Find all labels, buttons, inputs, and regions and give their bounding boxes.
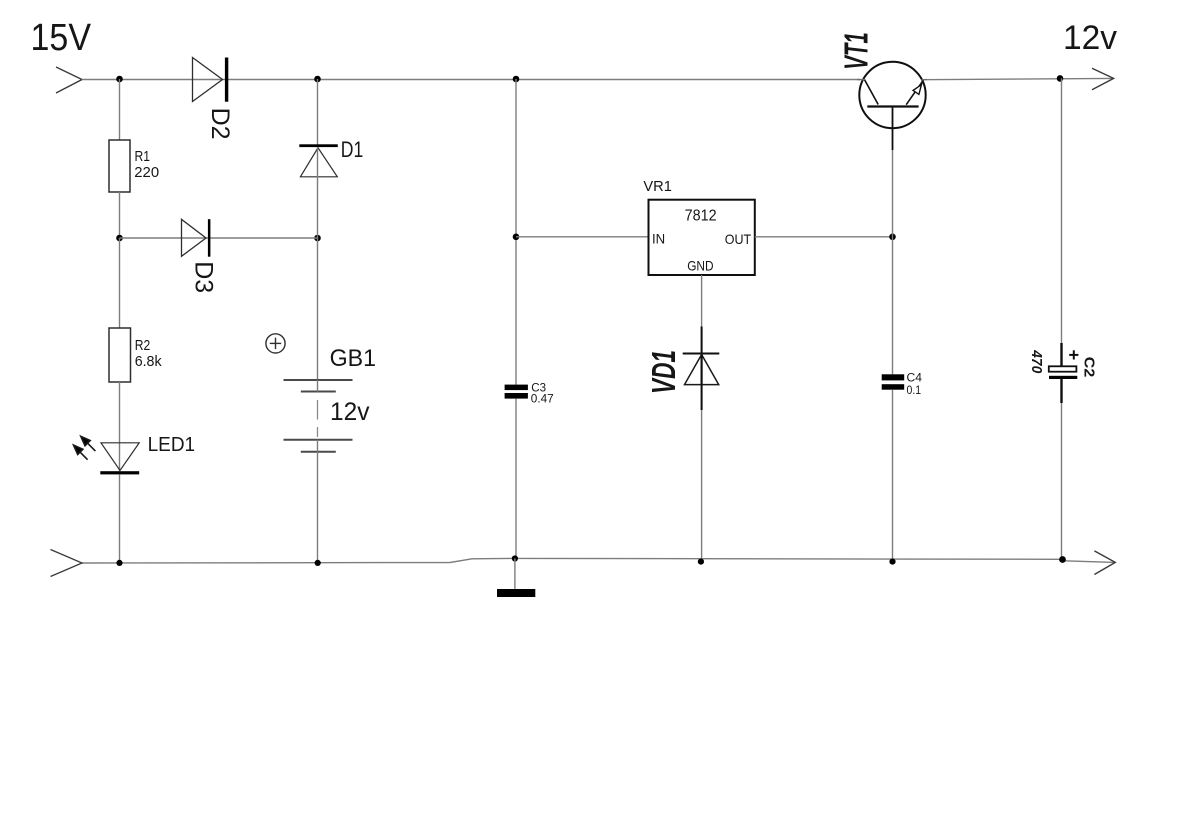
wire VR1 GND lead <box>701 275 703 559</box>
junction D3 row right <box>314 235 321 242</box>
junction D3 row left <box>116 235 123 242</box>
svg-text:OUT: OUT <box>725 231 752 247</box>
wire top rail <box>82 79 860 81</box>
wire bottom rail <box>82 558 1115 563</box>
svg-text:0.1: 0.1 <box>907 383 922 397</box>
LED LED1 <box>100 443 139 475</box>
ground symbol <box>497 589 535 597</box>
ground stub <box>514 559 516 590</box>
label VT1 <box>837 32 874 70</box>
svg-text:6.8k: 6.8k <box>135 353 162 370</box>
svg-text:470: 470 <box>1028 349 1045 373</box>
wire D1 column top <box>317 79 319 147</box>
diode D3 <box>182 219 211 257</box>
wire LED1 to bottom rail <box>119 474 121 563</box>
input arrow top-left <box>56 67 82 93</box>
LED1 emission arrows <box>74 436 96 459</box>
capacitor C2 (electrolytic) <box>1049 343 1078 403</box>
svg-text:GND: GND <box>687 258 713 274</box>
svg-text:VT1: VT1 <box>837 32 874 70</box>
label 470 <box>1028 349 1045 373</box>
diode D2 <box>193 58 229 102</box>
junction OUT wire at VT1 base column <box>889 234 896 241</box>
junction bottom rail at C4 column <box>889 559 895 565</box>
svg-text:0.47: 0.47 <box>531 392 554 406</box>
wire OUT node to C4 <box>892 237 894 374</box>
junction bottom rail at C2 column <box>1059 556 1066 563</box>
battery GB1 link wires <box>317 380 319 392</box>
svg-text:GB1: GB1 <box>330 345 376 372</box>
svg-text:12v: 12v <box>330 398 370 426</box>
wire VT1 base to OUT node <box>892 150 894 237</box>
svg-text:7812: 7812 <box>685 207 717 224</box>
transistor VT1 <box>857 62 927 150</box>
capacitor C3 <box>505 385 528 399</box>
svg-text:VD1: VD1 <box>645 350 682 394</box>
junction top rail at D1 column <box>314 76 321 83</box>
junction bottom rail at GB1 column <box>315 560 321 566</box>
wire D3 node to R2 <box>119 238 121 328</box>
wire C3 column <box>515 79 517 385</box>
svg-text:IN: IN <box>652 230 665 246</box>
C2 plus sign <box>1069 350 1078 359</box>
svg-text:220: 220 <box>134 164 159 181</box>
resistor R2 <box>109 328 131 382</box>
junction bottom rail at VD1 column <box>698 559 704 565</box>
diode VD1 <box>683 354 720 385</box>
resistor R1 <box>109 140 130 192</box>
svg-text:D1: D1 <box>341 137 364 162</box>
wire OUT to VT1 base column <box>755 236 893 238</box>
svg-text:C2: C2 <box>1080 357 1097 377</box>
regulator VR1 7812 <box>649 200 755 275</box>
junction top rail at R1 column <box>116 76 123 83</box>
battery GB1 <box>284 380 353 452</box>
input arrow bottom-left <box>51 550 83 577</box>
junction top rail at C2 column <box>1057 75 1064 82</box>
svg-text:D3: D3 <box>190 261 218 293</box>
svg-text:R1: R1 <box>135 148 151 165</box>
polarity symbol plus <box>266 334 285 353</box>
output arrow bottom-right <box>1094 551 1115 575</box>
output arrow top-right <box>1092 68 1114 90</box>
diode VD1 lead <box>701 327 703 411</box>
junction top rail at C3 column <box>513 76 520 83</box>
wire R2 to LED1 <box>119 382 121 471</box>
wire C2 column top <box>1061 78 1063 343</box>
label C2 <box>1080 357 1097 377</box>
svg-text:R2: R2 <box>135 337 151 354</box>
wire top rail right of VT1 <box>923 78 1114 79</box>
wire D1 to battery <box>317 147 319 380</box>
junction IN wire at C3 column <box>513 234 520 241</box>
svg-text:VR1: VR1 <box>643 178 672 195</box>
junction bottom rail at ground <box>512 555 518 561</box>
wire D3 row <box>120 237 318 239</box>
svg-text:LED1: LED1 <box>148 433 196 456</box>
svg-text:15V: 15V <box>31 17 92 59</box>
svg-text:D2: D2 <box>206 108 234 140</box>
wire C3 to bottom rail <box>515 399 517 559</box>
wire battery to bottom rail <box>317 452 319 563</box>
svg-text:12v: 12v <box>1063 19 1117 57</box>
wire IN to VR1 <box>516 236 649 238</box>
capacitor C4 <box>882 374 905 389</box>
label D3 <box>190 261 218 293</box>
diode D1 <box>299 144 338 177</box>
wire R1 to D3 node <box>119 192 121 238</box>
wire R1 column top <box>119 79 121 140</box>
wire C2 to bottom rail <box>1061 403 1063 560</box>
wire C4 to bottom rail <box>892 390 894 562</box>
junction bottom rail at LED column <box>116 560 122 566</box>
label D2 <box>206 108 234 140</box>
label VD1 <box>645 350 682 394</box>
